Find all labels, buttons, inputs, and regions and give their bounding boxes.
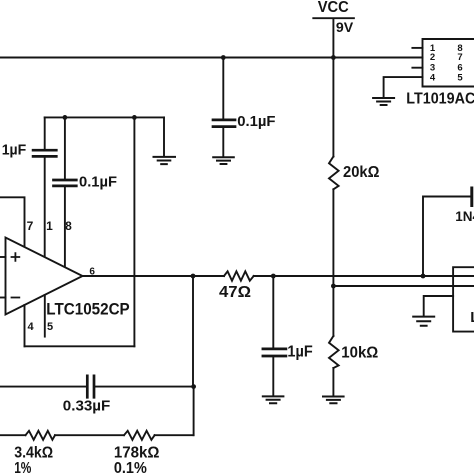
- svg-text:5: 5: [457, 72, 463, 83]
- wire: op-amp pin 7: [0, 197, 25, 247]
- node: diode tap: [421, 274, 426, 279]
- svg-text:3.4kΩ: 3.4kΩ: [14, 445, 53, 462]
- svg-text:LTC1052CP: LTC1052CP: [46, 299, 129, 318]
- svg-text:1µF: 1µF: [2, 142, 27, 158]
- resistor R 178k: [124, 431, 155, 440]
- diode D1 cathode bar: [470, 188, 473, 206]
- capacitor C1 1uF (pin 1): [33, 117, 56, 257]
- svg-text:1N4: 1N4: [455, 209, 474, 224]
- svg-text:1: 1: [46, 219, 53, 233]
- node: pin8 cap tap: [63, 115, 68, 120]
- node: feedback mid junction: [191, 384, 196, 389]
- capacitor C2 0.1uF (pin 8): [54, 117, 77, 267]
- wire: VCC vertical to 20k: [332, 58, 334, 157]
- wire: op-amp pin 4 down: [24, 305, 26, 346]
- resistor R 20k: [329, 157, 339, 190]
- plus input marker: [12, 253, 20, 261]
- node: 0.1uF tap on top rail: [221, 55, 226, 60]
- svg-text:0.1%: 0.1%: [114, 460, 147, 474]
- svg-text:10kΩ: 10kΩ: [341, 345, 378, 362]
- ground (under C4): [263, 396, 284, 403]
- wire: top rail to LT1019 pin 2: [0, 57, 423, 59]
- pin 1 stub (LT1019): [412, 47, 422, 49]
- capacitor C3 0.33uF (series): [0, 376, 194, 398]
- node: 1uF tap: [271, 274, 276, 279]
- wire: feedback vertical: [192, 276, 194, 387]
- svg-text:1µF: 1µF: [287, 344, 313, 361]
- svg-text:1%: 1%: [14, 460, 31, 474]
- resistor R 47ohm: [224, 271, 254, 280]
- wire: 10k to ground: [332, 368, 334, 396]
- svg-text:6: 6: [89, 267, 95, 278]
- svg-text:9V: 9V: [336, 20, 353, 35]
- svg-text:0.1µF: 0.1µF: [79, 174, 117, 191]
- IC U2 LT1019 box: [423, 39, 474, 87]
- node: VCC junction on top rail: [331, 55, 336, 60]
- svg-text:20kΩ: 20kΩ: [343, 164, 380, 181]
- wire: op-amp output rail: [83, 275, 474, 277]
- node: ground-return tap: [132, 115, 137, 120]
- wire: ground return bottom rail: [25, 345, 135, 347]
- wire: rail right end to ground: [163, 117, 165, 155]
- wire: -input stub: [0, 297, 6, 299]
- wire: +input stub: [0, 256, 6, 258]
- svg-text:0.1µF: 0.1µF: [237, 113, 275, 130]
- capacitor C_top 0.1uF (under top rail): [213, 58, 235, 157]
- svg-text:VCC: VCC: [318, 0, 349, 16]
- ground (under C_top): [213, 157, 234, 164]
- resistor R 3.4k: [26, 431, 56, 440]
- node: output junction: [191, 274, 196, 279]
- wire: diode branch: [423, 197, 470, 277]
- wire + resistors bottom chain: [0, 434, 194, 436]
- svg-text:LT1019AC: LT1019AC: [406, 91, 474, 108]
- wire: divider node rail to right box: [333, 285, 474, 287]
- wire: LT1019 pin 4 to ground: [384, 77, 423, 97]
- svg-text:178kΩ: 178kΩ: [114, 445, 160, 462]
- node: divider node: [331, 284, 336, 289]
- pin 3 stub (LT1019): [412, 67, 422, 69]
- wire: feedback lower vertical: [193, 387, 195, 436]
- VCC symbol: [313, 18, 354, 57]
- svg-text:5: 5: [47, 321, 53, 333]
- wire: ground return riser: [133, 117, 135, 346]
- ground (rail right end): [154, 157, 176, 164]
- wire: U3 ground pin: [424, 296, 453, 316]
- ground (U3 pin): [413, 317, 434, 326]
- svg-text:8: 8: [65, 219, 72, 233]
- svg-text:7: 7: [27, 219, 34, 233]
- svg-text:LT: LT: [470, 309, 474, 326]
- resistor R 10k: [329, 336, 339, 368]
- IC U3 box (bottom right): [453, 267, 474, 331]
- minus input marker: [12, 297, 20, 299]
- svg-text:0.33µF: 0.33µF: [63, 398, 111, 415]
- capacitor C4 1uF (output filter): [263, 276, 286, 396]
- svg-text:4: 4: [430, 72, 436, 83]
- wire: cap ground rail (op-amp top): [45, 116, 164, 118]
- svg-text:47Ω: 47Ω: [219, 284, 251, 301]
- ground (under 10k): [323, 397, 344, 404]
- ground (LT1019 pin 4): [373, 98, 394, 105]
- svg-text:4: 4: [27, 321, 34, 333]
- wire: 20k bottom to divider node: [332, 189, 334, 336]
- op-amp U1 triangle: [6, 238, 83, 315]
- wire: op-amp pin 5 down: [44, 295, 46, 337]
